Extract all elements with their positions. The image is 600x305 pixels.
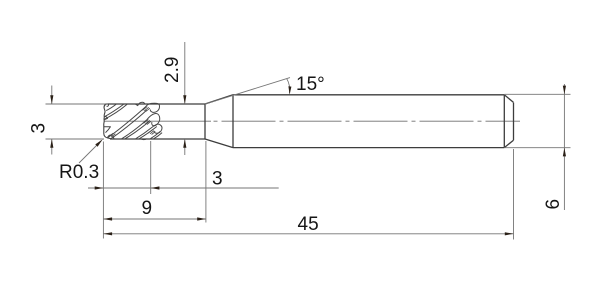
dim 9 arrow right	[197, 217, 206, 220]
dim 2.9 dimension line	[184, 42, 186, 155]
dim dia3 dimension line	[51, 86, 53, 155]
angle 15 arc	[287, 79, 290, 94]
angle 15 slant extension line	[205, 78, 290, 105]
dim 3 flute length line	[88, 187, 279, 189]
cutter head top edge	[106, 103, 206, 105]
center line solid left segment	[104, 120, 211, 122]
dim 9 arrow left	[103, 217, 112, 220]
extension line tip (x=103.4)	[102, 142, 104, 239]
dim dia3 arrow bottom	[50, 139, 53, 148]
flute helix 5 (bottom right short)	[150, 131, 160, 138]
shank bottom edge	[233, 147, 504, 149]
shank end face	[513, 103, 515, 141]
top edge relief bump	[136, 102, 145, 105]
shank top edge	[233, 94, 504, 96]
dim 9 dimension line	[103, 218, 205, 220]
dim 45 arrow right	[505, 232, 514, 235]
taper start shoulder (vertical)	[204, 104, 206, 139]
shank end vertical	[503, 95, 505, 148]
taper top slant	[205, 95, 233, 104]
extension line neck end (x=205.9)	[205, 141, 207, 223]
dim dia6 dimension line	[563, 84, 565, 210]
extension line tool end (x=513.5)	[513, 149, 515, 240]
center line dash-dot right segment	[214, 120, 521, 122]
angle 15 arc arrow	[288, 86, 291, 94]
dim dia6 top extension line	[505, 93, 571, 95]
dim 45 arrow left	[103, 232, 112, 235]
flute helix 4	[136, 125, 155, 139]
flute helix 2 (bottom-left corner to top-right hook)	[107, 107, 145, 138]
dim 3 arrow right (outside, pointing left)	[151, 186, 160, 189]
dim dia3 arrow top	[50, 95, 53, 104]
bottom corner scallop	[107, 135, 114, 139]
flute 4 end hook	[154, 124, 162, 133]
svg-text:9: 9	[142, 198, 153, 219]
radius R0.3 arrow	[95, 139, 102, 146]
flute 3 face hatch lines	[144, 119, 151, 124]
svg-text:15°: 15°	[296, 74, 325, 95]
dim dia3 bottom extension line	[46, 138, 105, 140]
svg-text:2.9: 2.9	[162, 57, 183, 83]
svg-text:3: 3	[212, 169, 223, 190]
flute 2 end hook	[145, 103, 159, 112]
shank end chamfer top	[504, 95, 513, 103]
cutter head bottom edge	[110, 138, 205, 140]
top corner curl	[104, 104, 108, 106]
taper end vertical	[232, 95, 234, 148]
dim 2.9 arrow bottom	[183, 139, 186, 148]
shank end chamfer bottom	[504, 140, 513, 147]
dim 45 dimension line	[103, 233, 513, 235]
flute helix 3	[122, 120, 147, 139]
flute 2 start hatch lines	[109, 133, 116, 137]
dim dia6 arrow bottom (outside, pointing up)	[563, 148, 566, 157]
svg-text:6: 6	[543, 199, 564, 210]
svg-text:R0.3: R0.3	[59, 162, 99, 183]
dim dia3 top extension line	[46, 103, 109, 105]
taper bottom slant	[205, 139, 233, 148]
svg-text:3: 3	[29, 123, 50, 134]
dim 2.9 arrow top	[183, 95, 186, 104]
bottom edge relief dip	[141, 138, 147, 141]
flute 2 face hatch lines	[143, 107, 150, 112]
radius R0.3 leader line	[79, 141, 102, 164]
cutter head left edge (end teeth scallops)	[104, 104, 111, 139]
end tooth gash spur	[104, 116, 107, 119]
dim dia6 arrow top (outside, pointing down)	[563, 86, 566, 95]
flute helix 1 upper-left extra line	[106, 104, 116, 110]
end tooth shelf notch	[104, 127, 111, 133]
dim 3 arrow left (outside, pointing right)	[95, 186, 104, 189]
flute 4 face hatch lines	[148, 130, 155, 135]
extension line flute end (x=150.7)	[150, 141, 152, 194]
dim dia6 bottom extension line	[505, 147, 571, 149]
flute helix 1 (upper left band)	[104, 104, 123, 116]
svg-text:45: 45	[298, 214, 319, 235]
flute 3 end hook	[147, 114, 160, 126]
